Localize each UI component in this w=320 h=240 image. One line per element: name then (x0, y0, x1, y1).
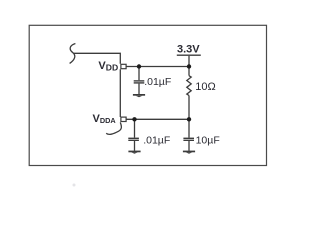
svg-text:VDD: VDD (98, 60, 118, 72)
svg-text:10µF: 10µF (196, 134, 220, 146)
svg-text:10Ω: 10Ω (195, 81, 215, 93)
svg-text:.01µF: .01µF (143, 134, 170, 146)
svg-text:3.3V: 3.3V (177, 43, 200, 55)
svg-text:.01µF: .01µF (144, 76, 171, 88)
